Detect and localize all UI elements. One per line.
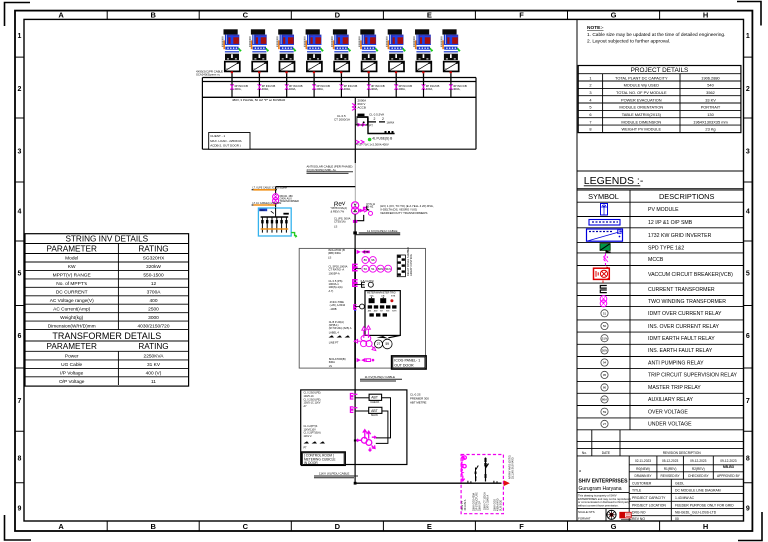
grid numbers right bbox=[746, 33, 750, 513]
svg-text:PARAMETER: PARAMETER bbox=[47, 342, 97, 351]
svg-text:EXTG 33KV A: EXTG 33KV A bbox=[486, 494, 489, 510]
svg-text:GEDL: GEDL bbox=[675, 481, 684, 485]
svg-text:1732 KW GRID INVERTER: 1732 KW GRID INVERTER bbox=[648, 233, 712, 239]
svg-text:3: 3 bbox=[746, 149, 750, 156]
svg-text:33 KV: 33 KV bbox=[705, 97, 716, 102]
svg-text:C: C bbox=[243, 11, 249, 20]
legend symbol: current transformer bbox=[600, 286, 607, 293]
svg-text:LABEL 4: LABEL 4 bbox=[329, 331, 340, 335]
rotated bay labels below line bbox=[461, 492, 502, 511]
earth at aux panel bbox=[291, 233, 296, 236]
svg-text:1.43 MW AC: 1.43 MW AC bbox=[675, 496, 695, 500]
metering cubicle enclosure bbox=[301, 390, 407, 465]
svg-text:6: 6 bbox=[589, 112, 591, 117]
logo round bbox=[607, 510, 616, 519]
PV module + SMB + string inverter unit 7 bbox=[386, 29, 412, 97]
svg-text:MCCB: MCCB bbox=[648, 257, 664, 263]
svg-text:PV MODULE: PV MODULE bbox=[648, 207, 679, 213]
svg-text:VEKRFER DUTY TRANSFORMERS: VEKRFER DUTY TRANSFORMERS bbox=[380, 211, 427, 215]
svg-text:H: H bbox=[703, 522, 708, 531]
svg-text:3700A: 3700A bbox=[147, 290, 162, 296]
svg-text:SPD TYPE 1&2: SPD TYPE 1&2 bbox=[648, 246, 684, 252]
svg-text:86: 86 bbox=[364, 258, 368, 262]
svg-text:130: 130 bbox=[707, 112, 714, 117]
svg-text:TWO WINDING TRANSFORMER: TWO WINDING TRANSFORMER bbox=[648, 299, 726, 305]
svg-text:100(S)-1(A): 100(S)-1(A) bbox=[329, 285, 343, 289]
svg-text:4L FUSE(S) B: 4L FUSE(S) B bbox=[372, 136, 392, 140]
svg-text:MPPT(V) RANGE: MPPT(V) RANGE bbox=[53, 273, 91, 279]
svg-text:400A,: 400A, bbox=[426, 87, 434, 91]
outgoing cable to grid bay bbox=[314, 455, 515, 514]
svg-text:480V, 3 PHASE, 50 HZ *P* ac BU: 480V, 3 PHASE, 50 HZ *P* ac BUSBAR bbox=[232, 98, 286, 102]
svg-text:LS: LS bbox=[328, 256, 331, 260]
svg-text:MODULE DIMENSION: MODULE DIMENSION bbox=[621, 119, 661, 124]
relay terminal block bbox=[397, 247, 413, 277]
svg-text:TITLE: TITLE bbox=[632, 489, 642, 493]
ICOG panel enclosure bbox=[299, 247, 426, 369]
svg-text:without consent those permis: without consent those permission. bbox=[578, 503, 619, 507]
bay CT stack bbox=[484, 458, 488, 482]
svg-text:CL 0.5,5VA: CL 0.5,5VA bbox=[369, 113, 384, 117]
svg-text:OUT DOOR: OUT DOOR bbox=[394, 363, 414, 367]
svg-text:8: 8 bbox=[746, 456, 750, 463]
svg-text:7: 7 bbox=[18, 398, 22, 405]
wire to grid interconnection bbox=[355, 482, 501, 484]
svg-text:27: 27 bbox=[377, 342, 381, 346]
svg-text:CHECKED BY: CHECKED BY bbox=[688, 474, 710, 478]
svg-text:CT RATIO -A: CT RATIO -A bbox=[329, 268, 345, 272]
svg-text:CLIENT - 1: CLIENT - 1 bbox=[210, 134, 225, 138]
ACCB drawout contacts bbox=[352, 104, 355, 111]
svg-text:4: 4 bbox=[18, 209, 22, 216]
svg-text:11KV (XLPE)U CABLE: 11KV (XLPE)U CABLE bbox=[319, 472, 349, 476]
svg-text:IDMT EARTH FAULT RELAY: IDMT EARTH FAULT RELAY bbox=[648, 336, 715, 342]
cable between ICOG and metering cubicle bbox=[301, 368, 429, 465]
svg-text:11: 11 bbox=[151, 379, 156, 385]
svg-text:1: 1 bbox=[18, 33, 22, 40]
MCCB incomer breaker 1 bbox=[231, 82, 233, 98]
svg-text:I/P Voltage: I/P Voltage bbox=[60, 371, 83, 377]
svg-text:95: 95 bbox=[603, 373, 607, 377]
svg-text:6: 6 bbox=[746, 333, 750, 340]
svg-text:1/MAX: 1/MAX bbox=[387, 120, 395, 124]
svg-text:MASTER TRIP RELAY: MASTER TRIP RELAY bbox=[648, 385, 701, 391]
svg-text:3000: 3000 bbox=[148, 315, 159, 321]
svg-text:86: 86 bbox=[603, 386, 607, 390]
line PT tap bbox=[354, 305, 357, 310]
svg-text:1: 1 bbox=[746, 33, 750, 40]
svg-text:TOTAL PLANT DC CAPACITY: TOTAL PLANT DC CAPACITY bbox=[615, 75, 668, 80]
HV riser inside ICOG bbox=[354, 248, 356, 368]
svg-text:MODULE Wp USED: MODULE Wp USED bbox=[624, 83, 660, 88]
fuse bank bbox=[368, 118, 395, 134]
svg-text:RATING: RATING bbox=[138, 342, 168, 351]
svg-text:05-12-2023: 05-12-2023 bbox=[662, 459, 679, 463]
svg-text:51: 51 bbox=[371, 267, 375, 271]
svg-text:BTB: BTB bbox=[391, 295, 396, 297]
svg-text:SYMBOL: SYMBOL bbox=[588, 192, 619, 201]
grid bay dashed enclosure bbox=[461, 455, 503, 514]
svg-text:OVER VOLTAGE: OVER VOLTAGE bbox=[648, 410, 688, 416]
CT to ABT check bbox=[350, 394, 357, 400]
svg-text:1964X1303X35 mm: 1964X1303X35 mm bbox=[693, 119, 727, 124]
legend symbol: VCB bbox=[594, 267, 610, 283]
svg-text:550-1500: 550-1500 bbox=[143, 273, 164, 279]
svg-text:F: F bbox=[519, 522, 524, 531]
svg-text:SHIV ENTERPRISES: SHIV ENTERPRISES bbox=[579, 479, 628, 485]
svg-text:96: 96 bbox=[371, 258, 375, 262]
svg-text:4: 4 bbox=[746, 209, 750, 216]
svg-text:R2(REV): R2(REV) bbox=[692, 467, 705, 471]
bay isolator stack bbox=[475, 466, 478, 482]
svg-text:B: B bbox=[150, 522, 156, 531]
svg-text:MAX. LOAD - 2250KVA: MAX. LOAD - 2250KVA bbox=[210, 139, 241, 143]
svg-text:TABLE MATRIX(2X13): TABLE MATRIX(2X13) bbox=[622, 112, 662, 117]
grid numbers left bbox=[18, 33, 22, 513]
MCCB incomer breaker 3 bbox=[286, 82, 288, 98]
svg-text:27: 27 bbox=[603, 422, 607, 426]
legend symbol: two winding transformer bbox=[600, 296, 607, 307]
PV module + SMB + string inverter unit 3 bbox=[276, 29, 302, 97]
svg-text:DC CURRENT: DC CURRENT bbox=[56, 290, 88, 296]
svg-text:51N: 51N bbox=[602, 336, 608, 340]
svg-text:400A,: 400A, bbox=[398, 87, 406, 91]
svg-text:09-12-2023: 09-12-2023 bbox=[720, 459, 737, 463]
svg-text:LINE PT: LINE PT bbox=[329, 341, 339, 345]
svg-text:8: 8 bbox=[589, 127, 591, 132]
ICOG name plate bbox=[392, 356, 427, 369]
svg-text:F: F bbox=[519, 11, 524, 20]
MCCB incomer breaker 5 bbox=[340, 82, 342, 98]
svg-text:PORTRAIT: PORTRAIT bbox=[701, 105, 721, 110]
svg-text:33/110V A: 33/110V A bbox=[464, 499, 467, 510]
svg-text:LS: LS bbox=[329, 364, 332, 368]
svg-text:CHECK: CHECK bbox=[370, 400, 379, 404]
svg-text:86A: 86A bbox=[602, 398, 607, 402]
svg-text:2: 2 bbox=[746, 86, 750, 93]
AC bus B bbox=[202, 81, 476, 83]
svg-text:B: B bbox=[150, 11, 156, 20]
relays 27 59 bbox=[375, 339, 393, 349]
PT cluster bbox=[357, 430, 376, 451]
svg-text:UG Cable: UG Cable bbox=[61, 362, 82, 368]
logo flag bbox=[620, 512, 632, 519]
svg-text:No.: No. bbox=[582, 451, 587, 455]
MCCB incomer breaker 2 bbox=[258, 82, 260, 98]
svg-text:50N: 50N bbox=[378, 267, 384, 271]
VCB labels bbox=[329, 320, 352, 330]
svg-text:2: 2 bbox=[589, 83, 591, 88]
svg-text:5: 5 bbox=[18, 271, 22, 278]
svg-text:DESCRIPTIONS: DESCRIPTIONS bbox=[659, 192, 715, 201]
svg-text:4030/2150/720: 4030/2150/720 bbox=[137, 323, 169, 329]
junction node bbox=[353, 231, 357, 234]
MCCB incomer breaker 9 bbox=[450, 82, 452, 98]
title block grid bbox=[577, 430, 744, 521]
svg-text:WM: WM bbox=[386, 311, 390, 313]
bay PT symbols bbox=[461, 456, 467, 481]
legend symbol: grid inverter bbox=[587, 229, 623, 241]
AC bus C bbox=[202, 96, 476, 98]
relays 86 96 bbox=[362, 257, 376, 264]
svg-text:IN DOOR: IN DOOR bbox=[304, 461, 318, 465]
svg-text:100/5P-A: 100/5P-A bbox=[329, 272, 340, 276]
svg-text:94: 94 bbox=[603, 361, 607, 365]
left notes bbox=[304, 392, 321, 408]
svg-text:-100B: -100B bbox=[330, 307, 337, 311]
svg-text:50 HZ: 50 HZ bbox=[367, 206, 374, 209]
svg-text:6: 6 bbox=[18, 333, 22, 340]
svg-text:O/P Voltage: O/P Voltage bbox=[59, 379, 85, 385]
svg-text:D: D bbox=[335, 522, 341, 531]
svg-text:400A,: 400A, bbox=[344, 87, 352, 91]
MCCB incomer breaker 6 bbox=[368, 82, 370, 98]
aux transformer bbox=[273, 194, 279, 204]
svg-text:02-11-2023: 02-11-2023 bbox=[635, 459, 651, 463]
svg-text:PARAMETER: PARAMETER bbox=[47, 244, 97, 253]
grid letters top bbox=[58, 11, 708, 20]
client info box bbox=[209, 133, 250, 150]
MCCB incomer breaker 7 bbox=[395, 82, 397, 98]
PV module + SMB + string inverter unit 9 bbox=[441, 29, 467, 97]
PV module + SMB + string inverter unit 2 bbox=[249, 29, 275, 97]
svg-text:TRANSFORMER: TRANSFORMER bbox=[280, 200, 300, 203]
svg-text:23 Kg: 23 Kg bbox=[705, 127, 715, 132]
svg-text:POWER EVACUATION: POWER EVACUATION bbox=[621, 97, 662, 102]
svg-text:REV NO: REV NO bbox=[632, 517, 645, 521]
right column panel border bbox=[577, 19, 744, 521]
transformer neutral earthing loop bbox=[359, 208, 367, 211]
isolator top bbox=[357, 250, 366, 254]
svg-text:400A,: 400A, bbox=[453, 87, 461, 91]
svg-text:33KV DP: 33KV DP bbox=[478, 501, 481, 511]
svg-text:540: 540 bbox=[707, 83, 714, 88]
svg-text:IDMT OVER CURRENT RELAY: IDMT OVER CURRENT RELAY bbox=[648, 311, 722, 317]
svg-text:(+45), 1/2044: (+45), 1/2044 bbox=[330, 303, 346, 307]
svg-text:12: 12 bbox=[151, 281, 157, 287]
svg-text:CT 2000/1A: CT 2000/1A bbox=[334, 118, 350, 122]
ABT meter note bbox=[410, 393, 429, 405]
svg-text:REVISION DESCRIPTION: REVISION DESCRIPTION bbox=[663, 451, 702, 455]
svg-text:ICOG PANEL- 1: ICOG PANEL- 1 bbox=[394, 358, 420, 362]
svg-text:& REV) 7%: & REV) 7% bbox=[331, 209, 345, 213]
note text bbox=[587, 25, 725, 45]
svg-text:400A,: 400A, bbox=[371, 87, 379, 91]
svg-text:SCA240(S)penn m,: SCA240(S)penn m, bbox=[196, 73, 220, 77]
svg-text:400A,: 400A, bbox=[234, 87, 242, 91]
svg-text:7: 7 bbox=[589, 119, 591, 124]
svg-text:ACCB: ACCB bbox=[358, 106, 366, 110]
PV module + SMB + string inverter unit 4 bbox=[304, 29, 330, 97]
svg-text:REVISED BY: REVISED BY bbox=[661, 474, 681, 478]
svg-text:00: 00 bbox=[675, 517, 679, 521]
svg-text:7: 7 bbox=[746, 398, 750, 405]
svg-text:09-12-2023: 09-12-2023 bbox=[690, 459, 707, 463]
legend symbol: MCCB bbox=[604, 254, 609, 266]
svg-text:3562: 3562 bbox=[706, 90, 715, 95]
svg-text:320kW: 320kW bbox=[146, 264, 161, 270]
svg-text:51: 51 bbox=[603, 311, 607, 315]
svg-text:MODULE ORIENTATION: MODULE ORIENTATION bbox=[619, 105, 663, 110]
svg-text:a: a bbox=[579, 469, 581, 473]
svg-text:STRING INV DETAILS: STRING INV DETAILS bbox=[65, 235, 148, 244]
svg-text:33,11KV SUB YARD: 33,11KV SUB YARD bbox=[512, 457, 515, 479]
svg-text:TOTAL NO. OF PV MODULE: TOTAL NO. OF PV MODULE bbox=[616, 90, 667, 95]
svg-text:400A,: 400A, bbox=[316, 87, 324, 91]
svg-text:PROJECT LOCATION: PROJECT LOCATION bbox=[632, 503, 666, 507]
CT below transformer bbox=[353, 220, 357, 223]
svg-text:INS. EARTH FAULT RELAY: INS. EARTH FAULT RELAY bbox=[648, 348, 713, 354]
svg-text:2: 2 bbox=[374, 117, 376, 121]
svg-text:NB-GEDL_GUJ-LOSS-LTD: NB-GEDL_GUJ-LOSS-LTD bbox=[675, 511, 717, 515]
svg-text:AUXILIARY RELAY: AUXILIARY RELAY bbox=[648, 397, 694, 403]
svg-text:5: 5 bbox=[746, 271, 750, 278]
CT to ABT main bbox=[350, 407, 357, 413]
feeder cable to transformer bbox=[354, 149, 356, 163]
svg-text:400: 400 bbox=[149, 298, 157, 304]
svg-text:E: E bbox=[427, 522, 432, 531]
CT cluster 1 bbox=[353, 264, 358, 270]
aux cable link 1 bbox=[253, 189, 275, 191]
svg-text:DATE: DATE bbox=[602, 451, 610, 455]
svg-text:TRANSFORMER DETAILS: TRANSFORMER DETAILS bbox=[52, 331, 161, 341]
DC bus A bbox=[202, 77, 476, 79]
svg-text:UNDER VOLTAGE: UNDER VOLTAGE bbox=[648, 422, 692, 428]
svg-text:(37-5P-20s) (625) A: (37-5P-20s) (625) A bbox=[329, 326, 352, 330]
svg-text:NOTE:-: NOTE:- bbox=[587, 25, 604, 31]
wire to ICOG bbox=[354, 214, 356, 248]
svg-text:D: D bbox=[335, 11, 341, 20]
ACCB feeder line bbox=[354, 97, 356, 149]
svg-text:PT: PT bbox=[304, 447, 308, 450]
svg-text:ABT: ABT bbox=[371, 396, 378, 400]
MCCB incomer breaker 4 bbox=[313, 82, 315, 98]
svg-text:RATING: RATING bbox=[138, 244, 168, 253]
PV module + SMB + string inverter unit 5 bbox=[331, 29, 357, 97]
svg-text:1: 1 bbox=[589, 75, 591, 80]
svg-text:2: 2 bbox=[18, 86, 22, 93]
svg-text:630A: 630A bbox=[329, 360, 335, 364]
PV module + SMB + string inverter unit 8 bbox=[413, 29, 439, 97]
svg-text:KWH: KWH bbox=[392, 311, 397, 313]
svg-text:(MB) 630A: (MB) 630A bbox=[328, 251, 341, 255]
svg-text:FORMAT: FORMAT bbox=[578, 517, 591, 521]
svg-text:CUSTOMER: CUSTOMER bbox=[632, 481, 652, 485]
svg-text:11KV 2: 11KV 2 bbox=[304, 435, 313, 438]
svg-text:Weight(kg): Weight(kg) bbox=[60, 315, 84, 321]
svg-text:Model: Model bbox=[65, 256, 78, 262]
svg-text:LT, 1C CABLE(x) 25SQMM: LT, 1C CABLE(x) 25SQMM bbox=[253, 202, 282, 205]
svg-text:G: G bbox=[611, 522, 617, 531]
svg-text:AM2: AM2 bbox=[374, 310, 378, 313]
svg-text:240V: 240V bbox=[260, 210, 266, 212]
svg-text:E: E bbox=[427, 11, 432, 20]
svg-text:9: 9 bbox=[18, 506, 22, 513]
svg-text:2X(3C/300SQ.MM)- AL: 2X(3C/300SQ.MM)- AL bbox=[307, 168, 337, 172]
control room name plate bbox=[302, 452, 346, 465]
svg-text:9: 9 bbox=[746, 506, 750, 513]
svg-text:2. Layout subjected to further: 2. Layout subjected to further approval. bbox=[587, 39, 670, 45]
VCB symbol cluster bbox=[354, 326, 376, 351]
svg-text:TRIP CIRCUIT SUPERVISION RELAY: TRIP CIRCUIT SUPERVISION RELAY bbox=[648, 373, 738, 379]
aux cable link 2 bbox=[253, 204, 275, 206]
svg-text:PROJECT CAPACITY: PROJECT CAPACITY bbox=[632, 496, 666, 500]
svg-text:1. Cable size may be updated a: 1. Cable size may be updated at the time… bbox=[587, 32, 725, 38]
svg-text:CT50/1A): CT50/1A) bbox=[334, 220, 346, 224]
svg-text:11 KV(XLPE)U CABLE: 11 KV(XLPE)U CABLE bbox=[365, 375, 395, 379]
svg-text:59: 59 bbox=[386, 342, 390, 346]
svg-text:ANTI PUMPING RELAY: ANTI PUMPING RELAY bbox=[648, 360, 704, 366]
svg-text:PROJECT DETAILS: PROJECT DETAILS bbox=[631, 67, 689, 74]
svg-text:50: 50 bbox=[364, 267, 368, 271]
svg-text:PT: PT bbox=[369, 124, 373, 128]
svg-text:SCALE NTS: SCALE NTS bbox=[578, 510, 595, 514]
svg-text:LT, XLPE CABLE 3CX25 SQMM: LT, XLPE CABLE 3CX25 SQMM bbox=[253, 186, 287, 189]
svg-text:ACDB-2, OUT DOOR ): ACDB-2, OUT DOOR ) bbox=[210, 143, 241, 147]
svg-text:WEIGHT PV MODULE: WEIGHT PV MODULE bbox=[622, 127, 662, 132]
svg-text:R0(NEW): R0(NEW) bbox=[636, 467, 650, 471]
svg-text:METER/MARKETER TRIO: METER/MARKETER TRIO bbox=[367, 291, 396, 294]
svg-text:R1(REV): R1(REV) bbox=[664, 467, 677, 471]
legend symbol: SMB bar bbox=[589, 220, 620, 226]
svg-text:2250KVA: 2250KVA bbox=[144, 354, 165, 360]
svg-text:G: G bbox=[611, 11, 617, 20]
svg-text:Gurugram Haryana: Gurugram Haryana bbox=[579, 486, 622, 492]
table: STRING INV DETAILS bbox=[25, 234, 189, 386]
svg-text:LS: LS bbox=[334, 225, 337, 229]
svg-text:ABT METRE: ABT METRE bbox=[410, 401, 427, 405]
svg-text:DRG NO: DRG NO bbox=[632, 511, 646, 515]
svg-text:A 7): A 7) bbox=[329, 289, 334, 293]
svg-text:DRAWN BY: DRAWN BY bbox=[634, 474, 652, 478]
LV room enclosure bbox=[202, 78, 476, 150]
legends table grid bbox=[577, 190, 744, 430]
line ticks bbox=[468, 481, 497, 484]
metering panel box bbox=[365, 291, 400, 336]
svg-text:ABT: ABT bbox=[371, 409, 378, 413]
legend symbol: PV module bbox=[601, 204, 608, 216]
svg-text:NB-B3: NB-B3 bbox=[723, 465, 734, 469]
svg-text:KW: KW bbox=[68, 264, 76, 270]
svg-text:SUB SIDE: SUB SIDE bbox=[499, 499, 502, 511]
svg-text:3: 3 bbox=[589, 90, 591, 95]
PV module + SMB + string inverter unit 6 bbox=[359, 29, 385, 97]
aux branch wire bbox=[276, 186, 356, 188]
svg-text:ARRAY CONTROL: ARRAY CONTROL bbox=[409, 253, 413, 276]
svg-text:LEGENDS :-: LEGENDS :- bbox=[584, 175, 644, 187]
svg-text:AC Current(Amp): AC Current(Amp) bbox=[53, 306, 90, 312]
svg-text:400A,: 400A, bbox=[289, 87, 297, 91]
meter tap with drawout arrows bbox=[355, 124, 368, 126]
svg-text:400A,: 400A, bbox=[262, 87, 270, 91]
svg-text:51N: 51N bbox=[385, 267, 391, 271]
svg-text:FEEDER PURPOSE ONLY FOR GRID: FEEDER PURPOSE ONLY FOR GRID bbox=[675, 503, 734, 507]
svg-text:12 I/P &1 O/P SMB: 12 I/P &1 O/P SMB bbox=[648, 220, 693, 226]
svg-text:50N: 50N bbox=[602, 349, 608, 353]
svg-text:A: A bbox=[58, 522, 64, 531]
svg-text:59: 59 bbox=[603, 410, 607, 414]
svg-text:A: A bbox=[58, 11, 64, 20]
PV module + SMB + string inverter unit 1 bbox=[222, 29, 248, 97]
isolator bottom bbox=[357, 358, 366, 362]
svg-text:CURRENT TRANSFORMER: CURRENT TRANSFORMER bbox=[648, 287, 715, 293]
svg-text:3: 3 bbox=[18, 149, 22, 156]
svg-text:VACCUM CIRCUIT BREAKER(VCB): VACCUM CIRCUIT BREAKER(VCB) bbox=[648, 272, 733, 278]
svg-text:2: 2 bbox=[382, 117, 384, 121]
svg-text:Power: Power bbox=[65, 354, 79, 360]
aux ACDB panel bbox=[258, 208, 291, 236]
svg-text:AM1: AM1 bbox=[368, 310, 372, 313]
